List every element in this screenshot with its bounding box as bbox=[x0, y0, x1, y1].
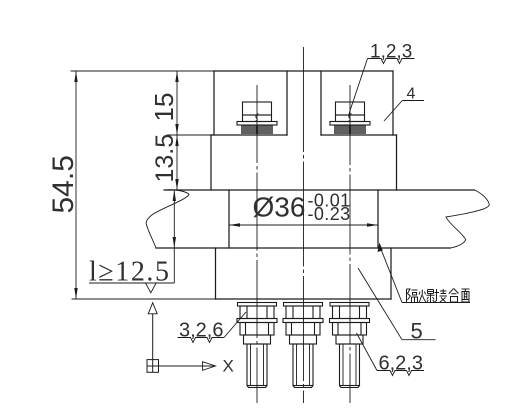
mounting plate top surface y190 bbox=[164, 189, 475, 191]
surface tick above baseline bbox=[145, 283, 156, 293]
svg-text:Ø36: Ø36 bbox=[253, 192, 306, 223]
svg-text:-0.23: -0.23 bbox=[308, 204, 351, 224]
plate left break line bbox=[146, 190, 189, 248]
terminal stud upper right (item 1,2,3) bbox=[330, 102, 370, 134]
housing step line y135 bbox=[211, 134, 397, 136]
dimension l>=12.5 bbox=[89, 190, 176, 283]
hanzi ge (isolate) bbox=[407, 289, 418, 302]
extension line bottom (54.5 datum) bbox=[72, 298, 216, 300]
terminal stud upper left (item 1,2,3) bbox=[237, 102, 277, 134]
extension line top (54.5 / 15 datum) bbox=[71, 70, 214, 72]
label 3,2,6 bbox=[178, 312, 247, 343]
Y axis open arrow bbox=[148, 303, 157, 314]
lower stud right (items 6,2,3) bbox=[330, 303, 370, 388]
label 6,2,3 bbox=[357, 333, 425, 376]
hanzi jie (joint) bbox=[435, 289, 448, 302]
hanzi mian (surface) bbox=[462, 289, 470, 302]
label flameproof joint surface (Chinese) with leader bbox=[380, 246, 471, 303]
plate right break line bbox=[446, 190, 489, 248]
svg-text:4: 4 bbox=[407, 86, 416, 103]
centerline main axis bbox=[303, 47, 305, 403]
centerline right bolt bbox=[349, 85, 351, 403]
svg-text:6,2,3: 6,2,3 bbox=[379, 353, 423, 375]
svg-text:15: 15 bbox=[149, 93, 179, 122]
dimension 54.5 bbox=[74, 71, 77, 299]
extension line y135 bbox=[167, 134, 211, 136]
svg-text:13.5: 13.5 bbox=[151, 134, 179, 183]
svg-text:1,2,3: 1,2,3 bbox=[370, 42, 412, 63]
upper housing right cavity bbox=[321, 71, 393, 135]
flameproof cylinder left edge bbox=[228, 190, 230, 248]
mounting plate bottom surface y248 bbox=[156, 247, 450, 249]
svg-text:54.5: 54.5 bbox=[47, 155, 80, 213]
dimension diameter 36 bbox=[229, 223, 378, 226]
X axis open arrow bbox=[203, 362, 216, 371]
hanzi bao (explosion) bbox=[419, 290, 435, 303]
lower stud middle (items 3,2,6) bbox=[283, 303, 323, 388]
svg-text:X: X bbox=[223, 357, 234, 376]
label 5 bbox=[358, 268, 436, 340]
centerline left bolt bbox=[256, 85, 258, 403]
upper housing left cavity bbox=[214, 71, 287, 135]
hanzi he (mating) bbox=[449, 289, 459, 303]
flameproof cylinder right edge bbox=[377, 190, 379, 248]
datum origin square bbox=[147, 314, 203, 373]
svg-text:5: 5 bbox=[411, 319, 423, 344]
svg-text:l≥12.5: l≥12.5 bbox=[89, 257, 169, 288]
upper housing top edge bbox=[214, 70, 393, 72]
lower stud left (items 3,2,6) bbox=[237, 303, 277, 388]
lower body (gland) bbox=[216, 248, 392, 299]
housing body sides y135-190 bbox=[211, 135, 397, 190]
svg-text:3,2,6: 3,2,6 bbox=[179, 320, 223, 342]
label 1,2,3 bbox=[349, 59, 415, 117]
dimension 15 / 13.5 line bbox=[175, 71, 178, 190]
label 4 bbox=[384, 101, 424, 122]
